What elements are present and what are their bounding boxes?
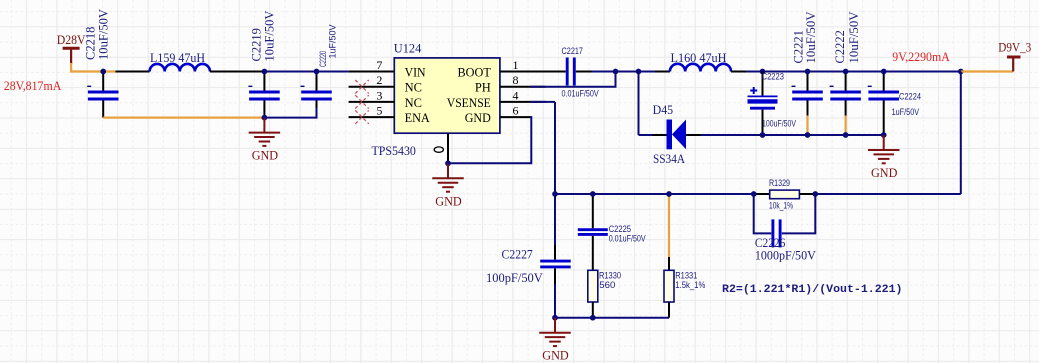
svg-text:D9V_3: D9V_3	[998, 41, 1031, 55]
svg-text:1: 1	[513, 58, 519, 72]
svg-text:C2222: C2222	[833, 30, 847, 63]
svg-text:10uF/50V: 10uF/50V	[263, 10, 277, 61]
svg-text:D28V: D28V	[57, 33, 86, 47]
svg-text:10k_1%: 10k_1%	[769, 201, 793, 211]
svg-text:C2217: C2217	[562, 46, 584, 56]
svg-text:560: 560	[599, 280, 615, 290]
svg-text:BOOT: BOOT	[458, 66, 492, 80]
svg-text:100uF/50V: 100uF/50V	[762, 119, 797, 129]
svg-text:C2224: C2224	[899, 92, 921, 102]
svg-text:0.01uF/50V: 0.01uF/50V	[609, 233, 647, 243]
svg-text:10uF/50V: 10uF/50V	[97, 9, 111, 60]
svg-text:5: 5	[376, 104, 382, 118]
svg-text:D45: D45	[653, 102, 674, 117]
svg-text:1uF/50V: 1uF/50V	[328, 24, 338, 59]
svg-text:9V,2290mA: 9V,2290mA	[892, 49, 950, 64]
svg-text:10uF/50V: 10uF/50V	[804, 12, 818, 64]
svg-text:1.5k_1%: 1.5k_1%	[675, 280, 705, 290]
svg-text:4: 4	[513, 88, 519, 102]
svg-text:NC: NC	[405, 81, 422, 95]
svg-text:100pF/50V: 100pF/50V	[486, 270, 543, 285]
svg-text:C2223: C2223	[762, 72, 784, 82]
svg-text:R2=(1.221*R1)/(Vout-1.221): R2=(1.221*R1)/(Vout-1.221)	[722, 284, 903, 296]
svg-text:7: 7	[376, 58, 382, 72]
svg-text:1uF/50V: 1uF/50V	[892, 107, 920, 117]
svg-text:8: 8	[513, 73, 519, 87]
svg-text:VIN: VIN	[405, 66, 426, 80]
svg-text:GND: GND	[435, 194, 462, 208]
svg-text:3: 3	[376, 88, 382, 102]
svg-text:10uF/50V: 10uF/50V	[847, 12, 861, 64]
svg-text:28V,817mA: 28V,817mA	[4, 78, 62, 93]
svg-text:6: 6	[513, 104, 519, 118]
svg-text:1000pF/50V: 1000pF/50V	[755, 248, 816, 263]
svg-text:C2218: C2218	[84, 27, 98, 60]
svg-text:C2227: C2227	[502, 246, 534, 261]
svg-text:GND: GND	[871, 166, 898, 180]
svg-text:GND: GND	[465, 111, 491, 125]
svg-text:2: 2	[376, 73, 382, 87]
svg-text:R1331: R1331	[675, 271, 697, 281]
svg-text:VSENSE: VSENSE	[447, 96, 491, 110]
svg-text:L159 47uH: L159 47uH	[150, 50, 205, 65]
svg-text:PH: PH	[475, 81, 491, 95]
svg-text:SS34A: SS34A	[653, 151, 686, 166]
svg-text:0.01uF/50V: 0.01uF/50V	[562, 89, 600, 99]
svg-text:R1329: R1329	[769, 178, 790, 188]
svg-text:C2220: C2220	[318, 51, 328, 67]
svg-text:R1330: R1330	[599, 271, 621, 281]
svg-text:GND: GND	[252, 149, 279, 163]
svg-text:GND: GND	[542, 349, 569, 363]
svg-text:NC: NC	[405, 96, 422, 110]
svg-text:C2219: C2219	[250, 28, 264, 61]
svg-text:U124: U124	[394, 41, 422, 55]
svg-text:L160 47uH: L160 47uH	[671, 50, 727, 65]
svg-text:ENA: ENA	[405, 111, 430, 125]
svg-text:TPS5430: TPS5430	[372, 144, 416, 158]
